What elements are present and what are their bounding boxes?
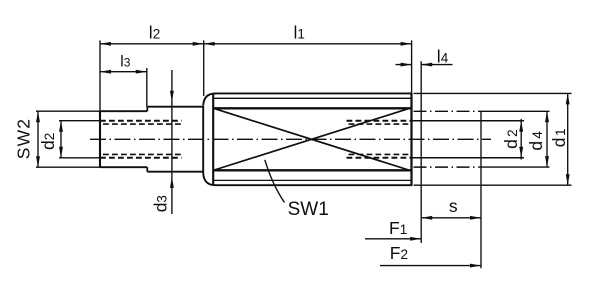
svg-text:l3: l3 bbox=[120, 54, 130, 71]
X cross diagonal 2 bbox=[214, 109, 408, 170]
dimension d1 bbox=[567, 93, 569, 185]
body left chamfer line bbox=[212, 93, 214, 185]
right stub dash-dot lines (d4) bbox=[414, 111, 479, 167]
dimension l1 bbox=[204, 42, 215, 46]
dimension F2 bbox=[380, 265, 481, 267]
dimension d3 (outside arrows) bbox=[171, 70, 173, 214]
dimension d2 right bbox=[520, 119, 522, 160]
SW2 extension lines bbox=[36, 110, 100, 112]
extension line l2/l1 boundary bbox=[203, 40, 205, 96]
dimension SW2 bbox=[37, 111, 39, 167]
extension line l3 end bbox=[146, 68, 148, 107]
body inner bottom line (thin) bbox=[214, 179, 412, 181]
dimension d4 bbox=[546, 111, 548, 167]
part: d3 section outline bbox=[147, 107, 204, 172]
svg-text:d2: d2 bbox=[501, 129, 521, 149]
X cross diagonal 1 bbox=[214, 109, 408, 170]
svg-text:l2: l2 bbox=[149, 22, 160, 42]
part: left small section (l3/SW2 section) outline bbox=[100, 107, 147, 172]
dimension l2 bbox=[100, 43, 204, 45]
body upper thick line bbox=[214, 107, 412, 109]
center line bbox=[90, 138, 491, 140]
svg-text:d2: d2 bbox=[38, 133, 58, 150]
d2 left extension lines bbox=[59, 120, 100, 122]
right stub solid lines (d2 extension) bbox=[413, 121, 525, 158]
hidden thread hole right: inner dashed pair bbox=[349, 124, 412, 154]
svg-text:F2: F2 bbox=[390, 243, 408, 263]
extension line s end / F2 bbox=[480, 112, 482, 268]
d1 extension lines bbox=[414, 93, 572, 185]
dimension l4 (outside arrows) bbox=[396, 64, 412, 66]
hidden thread hole right (inside body): outer dashed pair bbox=[347, 121, 412, 158]
dimension F1 bbox=[365, 238, 421, 240]
dimension l3 bbox=[100, 71, 147, 73]
dimension s bbox=[421, 217, 481, 219]
svg-text:d1: d1 bbox=[549, 128, 569, 147]
svg-text:s: s bbox=[449, 196, 458, 216]
body lower thick line bbox=[214, 169, 412, 171]
svg-text:l4: l4 bbox=[437, 47, 449, 67]
extension line l4 end / s start / F1 bbox=[420, 61, 422, 243]
hidden thread hole left: inner dashed pair bbox=[103, 124, 182, 154]
svg-text:d3: d3 bbox=[150, 195, 170, 212]
svg-text:d4: d4 bbox=[526, 131, 546, 151]
body inner top line (thin) bbox=[214, 97, 412, 99]
part: main body outline (d1 / SW1) bbox=[203, 93, 412, 185]
hidden thread hole left: outer dashed pair bbox=[100, 121, 182, 158]
extension line left face (l2/l3 start) bbox=[99, 40, 101, 111]
svg-text:l1: l1 bbox=[294, 23, 305, 43]
extension line l1 end / body right face top bbox=[411, 40, 413, 93]
SW1 leader line bbox=[265, 160, 285, 203]
svg-text:SW2: SW2 bbox=[14, 118, 34, 160]
d4 extension lines (solid part) bbox=[478, 111, 550, 167]
svg-text:F1: F1 bbox=[389, 218, 407, 238]
svg-text:SW1: SW1 bbox=[288, 199, 329, 220]
dimension d2 left bbox=[60, 121, 62, 158]
